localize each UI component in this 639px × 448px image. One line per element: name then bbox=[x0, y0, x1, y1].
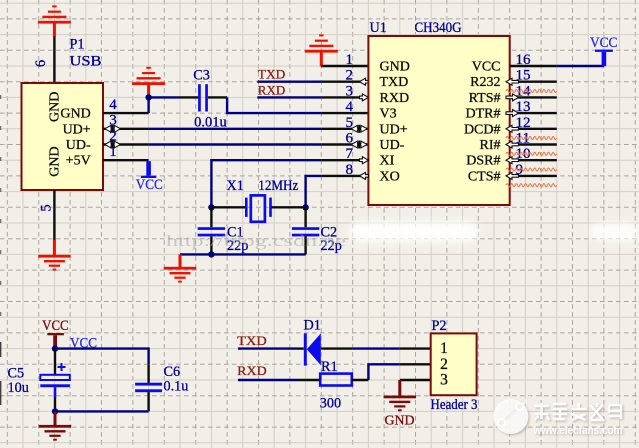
capacitor C1 plates bbox=[198, 227, 225, 230]
P2 pin 3 lead bbox=[400, 379, 431, 381]
header P2 body bbox=[431, 333, 477, 395]
P2 pin 1 lead bbox=[400, 347, 431, 349]
capacitor C2 plates bbox=[292, 227, 319, 230]
svg-text:UD+: UD+ bbox=[380, 122, 408, 137]
svg-text:5: 5 bbox=[39, 204, 55, 211]
U1 pin 8 lead bbox=[321, 175, 368, 177]
capacitor C5 positive plate bbox=[40, 375, 70, 380]
U1 pin 14 lead bbox=[510, 96, 557, 98]
svg-text:Header 3: Header 3 bbox=[431, 397, 478, 413]
svg-text:GND: GND bbox=[385, 414, 415, 429]
P1 pin 4 (GND) lead bbox=[103, 112, 149, 114]
U1 pin 13 lead bbox=[510, 112, 557, 114]
watermark elecfans CJK text bbox=[535, 403, 622, 420]
wire RXD to R1 bbox=[238, 379, 297, 381]
svg-text:V3: V3 bbox=[380, 107, 397, 122]
svg-text:UD-: UD- bbox=[66, 138, 91, 153]
watermark elecfans url text bbox=[533, 423, 623, 437]
P1 pin 2 IO arrow bbox=[105, 141, 111, 148]
svg-text:4: 4 bbox=[109, 97, 117, 113]
svg-text:CTS#: CTS# bbox=[468, 169, 501, 184]
U1 pin 14 arrow bbox=[506, 94, 519, 101]
svg-text:TXD: TXD bbox=[380, 75, 409, 90]
svg-text:XI: XI bbox=[380, 154, 395, 169]
svg-text:CH340G: CH340G bbox=[415, 20, 462, 36]
svg-text:0.1u: 0.1u bbox=[164, 379, 189, 395]
C6 bottom lead bbox=[147, 392, 149, 411]
resistor R1 body bbox=[320, 374, 352, 386]
U1 pin 2 output arrow bbox=[360, 78, 369, 85]
C6 top lead bbox=[147, 364, 149, 383]
P1 pin 1 (+5V) lead bbox=[103, 159, 149, 161]
svg-text:DCD#: DCD# bbox=[464, 122, 501, 137]
svg-text:GND: GND bbox=[380, 60, 410, 75]
ground (earth) above junction bbox=[132, 82, 165, 85]
capacitor C3 plates bbox=[198, 84, 201, 111]
svg-text:1: 1 bbox=[346, 52, 354, 68]
crystal X1 right lead bbox=[270, 206, 306, 208]
svg-text:RXD: RXD bbox=[258, 82, 286, 97]
junction node XI bbox=[208, 204, 214, 210]
svg-text:GND: GND bbox=[48, 146, 63, 176]
U1 pin 4 lead bbox=[321, 112, 368, 114]
svg-text:5: 5 bbox=[346, 115, 354, 131]
wire R1 to P2 pin 2 bbox=[368, 364, 399, 380]
capacitor C5 negative plate bbox=[40, 384, 70, 387]
svg-text:3: 3 bbox=[346, 83, 354, 99]
wire U1 pin 8 to crystal XO node bbox=[306, 176, 322, 207]
wire RXD to U1 pin 3 bbox=[257, 96, 321, 98]
junction node GND net bbox=[145, 94, 151, 100]
U1 pin 7 input arrow bbox=[360, 157, 369, 164]
wire TXD to D1 bbox=[238, 347, 297, 349]
C5 bottom lead bbox=[54, 387, 57, 398]
U1 pin 9 lead bbox=[510, 175, 557, 177]
power port VCC below P1 pin 1 bbox=[141, 176, 156, 178]
svg-text:X1: X1 bbox=[227, 178, 244, 194]
svg-text:3: 3 bbox=[440, 372, 448, 389]
wire junction down to P1 pin 4 bbox=[147, 97, 149, 113]
diode D1 bbox=[304, 333, 307, 365]
watermark elecfans logo circle bbox=[493, 399, 528, 434]
svg-text:P1: P1 bbox=[70, 37, 85, 53]
P1 pin 3 IO arrow bbox=[105, 125, 111, 132]
U1 pin 11 lead bbox=[510, 143, 557, 145]
D1 right lead bbox=[321, 347, 353, 349]
watermark white blur patch bbox=[350, 222, 639, 242]
C5 plus sign bbox=[58, 363, 66, 371]
C3 left lead bbox=[180, 96, 198, 98]
R1 left lead bbox=[297, 379, 320, 381]
svg-text:4: 4 bbox=[346, 99, 354, 115]
wire U1 pin 7 to crystal XI node bbox=[211, 160, 321, 207]
svg-text:R1: R1 bbox=[321, 359, 338, 375]
wire P1 pin 6 to earth bbox=[53, 37, 55, 84]
junction node VCC/C5 top bbox=[52, 345, 58, 351]
svg-text:P2: P2 bbox=[432, 318, 447, 334]
ground (earth) below crystal bbox=[179, 254, 182, 267]
capacitor C6 plates bbox=[135, 383, 162, 386]
C1 bottom lead bbox=[210, 236, 212, 254]
svg-text:TXD: TXD bbox=[237, 333, 267, 348]
svg-text:1: 1 bbox=[440, 340, 448, 357]
svg-text:UD-: UD- bbox=[380, 138, 405, 153]
U1 pin 5 IO arrow bbox=[351, 125, 358, 132]
svg-text:VCC: VCC bbox=[472, 60, 501, 75]
U1 pin 8 output arrow bbox=[360, 172, 369, 179]
P2 pin 2 lead bbox=[400, 363, 431, 365]
svg-text:6: 6 bbox=[33, 60, 49, 67]
U1 pin 10 lead bbox=[510, 159, 557, 161]
junction node XO bbox=[302, 204, 308, 210]
C1 top lead bbox=[210, 207, 212, 227]
no-connect squiggle pin 12 bbox=[506, 137, 557, 140]
U1 pin 3 input arrow bbox=[360, 94, 369, 101]
wire U1 pin 16 to VCC bbox=[557, 65, 604, 67]
svg-text:RTS#: RTS# bbox=[469, 91, 501, 106]
svg-text:RXD: RXD bbox=[380, 91, 410, 106]
power port VCC (top right) bbox=[602, 52, 607, 66]
svg-text:1: 1 bbox=[109, 144, 117, 160]
C2 bottom lead bbox=[304, 236, 306, 254]
U1 pin 9 arrow bbox=[506, 172, 519, 179]
svg-text:DSR#: DSR# bbox=[466, 154, 500, 169]
ground (earth) above U1 pin 1 bbox=[305, 50, 338, 53]
svg-text:U1: U1 bbox=[370, 20, 387, 36]
crystal X1 left lead bbox=[211, 206, 245, 208]
wire earth to U1 pin 1 bbox=[321, 65, 368, 67]
svg-text:300: 300 bbox=[320, 396, 341, 412]
U1 pin 6 IO arrow bbox=[351, 141, 358, 148]
svg-text:TXD: TXD bbox=[258, 67, 286, 82]
wire UD+ P1 pin3 to U1 pin5 bbox=[149, 128, 322, 130]
svg-text:RXD: RXD bbox=[237, 363, 266, 378]
svg-text:GND: GND bbox=[60, 107, 90, 122]
svg-text:http://blog.csdn.ne: http://blog.csdn.ne bbox=[166, 233, 346, 250]
svg-text:XO: XO bbox=[380, 169, 400, 184]
crystal X1 plates and body bbox=[245, 198, 248, 217]
wire D1 to P2 pin 1 bbox=[353, 347, 400, 349]
wire C5 bottom to C6 bottom bbox=[55, 410, 149, 412]
U1 pin 13 arrow bbox=[506, 110, 519, 117]
ground (earth) below P1 bbox=[53, 240, 56, 255]
svg-text:RI#: RI# bbox=[480, 138, 501, 153]
connector P1 body bbox=[22, 83, 104, 190]
svg-text:www.elecfans.com: www.elecfans.com bbox=[533, 423, 623, 437]
svg-text:UD+: UD+ bbox=[63, 122, 91, 137]
C5 top lead bbox=[54, 349, 56, 375]
ground (earth) at P2 pin 3 bbox=[398, 380, 401, 396]
wire crystal ground bus bbox=[180, 253, 306, 255]
U1 pin 7 lead bbox=[321, 159, 368, 161]
svg-text:+5V: +5V bbox=[66, 154, 91, 169]
P1 pin 5 lead (bottom) bbox=[53, 190, 55, 240]
U1 pin 3 lead bbox=[321, 96, 368, 98]
P1 pin 3 (UD+) lead bbox=[103, 128, 149, 130]
wire junction to C3 left bbox=[149, 96, 180, 98]
U1 pin 12 lead bbox=[510, 128, 557, 130]
wire TXD to U1 pin 2 bbox=[257, 80, 321, 82]
svg-text:C3: C3 bbox=[193, 67, 210, 83]
U1 pin 6 lead bbox=[321, 143, 368, 145]
P1 pin 2 (UD-) lead bbox=[103, 143, 149, 145]
U1 pin 5 lead bbox=[321, 128, 368, 130]
svg-text:VCC: VCC bbox=[590, 35, 618, 51]
wire VCC to C6 top bbox=[55, 349, 149, 365]
C3 right lead bbox=[208, 96, 227, 98]
ground (earth) below C5 bbox=[54, 411, 57, 425]
IC U1 body bbox=[368, 36, 509, 205]
R1 right lead bbox=[352, 379, 369, 381]
svg-text:2: 2 bbox=[440, 356, 448, 373]
no-connect squiggle pin 11 bbox=[506, 152, 557, 155]
left image-edge artifact bbox=[0, 95, 2, 330]
no-connect squiggle pin 10 bbox=[506, 168, 557, 171]
svg-text:12MHz: 12MHz bbox=[258, 178, 298, 194]
svg-text:10u: 10u bbox=[8, 380, 29, 396]
svg-text:2: 2 bbox=[346, 68, 354, 84]
svg-text:USB: USB bbox=[70, 54, 102, 70]
U1 pin 16 lead bbox=[510, 65, 557, 67]
junction node crystal bus bbox=[208, 251, 214, 257]
svg-text:DTR#: DTR# bbox=[466, 107, 501, 122]
D1 left lead bbox=[297, 347, 304, 349]
svg-text:VCC: VCC bbox=[42, 318, 69, 334]
U1 pin 2 lead bbox=[321, 80, 368, 82]
svg-text:6: 6 bbox=[346, 131, 354, 147]
U1 pin 15 lead bbox=[510, 80, 557, 82]
U1 pin 10 arrow bbox=[506, 157, 519, 164]
svg-text:VCC: VCC bbox=[136, 177, 163, 193]
ground (earth) above P1 bbox=[38, 21, 71, 24]
C2 top lead bbox=[304, 207, 306, 227]
no-connect squiggle pin 9 bbox=[506, 184, 557, 187]
svg-text:D1: D1 bbox=[304, 317, 321, 333]
junction node C5 bottom bbox=[52, 408, 58, 414]
U1 pin 12 arrow bbox=[506, 125, 519, 132]
U1 pin 15 arrow bbox=[506, 78, 519, 85]
wire UD- P1 pin2 to U1 pin6 bbox=[149, 143, 322, 145]
svg-text:R232: R232 bbox=[470, 75, 500, 90]
U1 pin 11 arrow bbox=[506, 141, 519, 148]
wire C3 to U1 pin 4 (V3) bbox=[227, 97, 321, 113]
no-connect squiggle pin 15 bbox=[506, 89, 557, 92]
